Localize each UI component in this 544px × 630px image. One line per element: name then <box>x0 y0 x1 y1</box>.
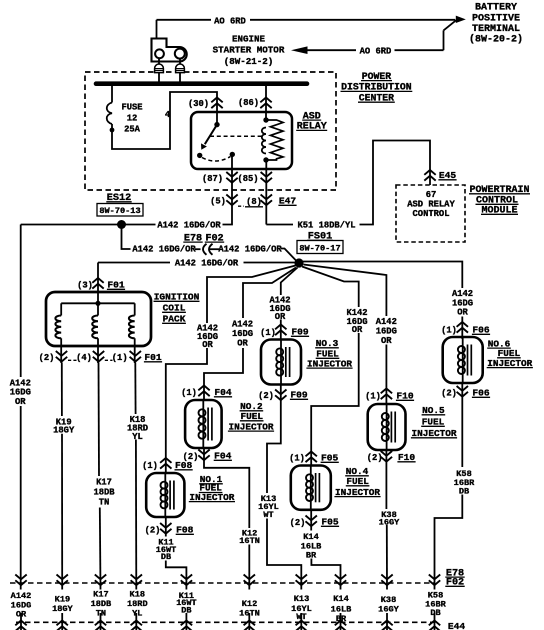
fuse 12 25A symbol <box>107 103 112 125</box>
label FUEL no.5 <box>421 417 445 428</box>
connector chevron no.3 pin1 F09 <box>275 325 286 336</box>
svg-text:(2): (2) <box>258 391 274 401</box>
label INJECTOR no.2 <box>228 421 274 432</box>
label connector E78 (bottom) <box>445 568 464 579</box>
label splice ES12 <box>106 193 131 204</box>
svg-text:16LB: 16LB <box>331 605 352 615</box>
label K18 18RD YL <box>127 415 148 442</box>
power distribution center enclosure (dashed box) <box>85 72 336 190</box>
label INJECTOR no.4 <box>334 487 380 498</box>
wire bus bar to relay terminal 86 <box>265 86 267 120</box>
wire K51 18DB/YL (left segment) <box>266 224 293 226</box>
svg-text:AO 6RD: AO 6RD <box>214 16 246 26</box>
relay coil winding <box>262 128 266 154</box>
svg-text:A142: A142 <box>11 591 32 601</box>
svg-text:18GY: 18GY <box>53 426 75 436</box>
splice dot ES12 <box>117 220 126 229</box>
connector chevron K19 at row E78/F02 <box>57 575 68 586</box>
connector chevron K38 at row E78/F02 <box>381 575 392 586</box>
label connector F01 (bottom) <box>144 352 162 363</box>
svg-text:K51 18DB/YL: K51 18DB/YL <box>297 220 355 230</box>
svg-text:18DB: 18DB <box>93 488 115 498</box>
label connector E47 <box>278 196 296 207</box>
wire ES12 drop to inline connector <box>122 225 131 250</box>
wire splice ray to no.1 injector <box>207 266 296 324</box>
label connector F06 (bottom) <box>472 388 490 399</box>
wire A0 6RD to starter (left segment) <box>307 49 357 51</box>
wire A142 16DG/OR left column upper <box>20 225 22 378</box>
connector chevron A142 at row E78/F02 <box>15 575 26 586</box>
powertrain control module enclosure (dashed box) <box>396 185 465 242</box>
svg-text:A142 16DG/OR: A142 16DG/OR <box>218 245 282 255</box>
wire splice to no.6 injector feed <box>303 262 462 289</box>
wire battery branch riser <box>443 30 445 50</box>
svg-text:K19: K19 <box>55 595 70 605</box>
svg-text:OR: OR <box>275 312 286 322</box>
svg-text:(8W-20-2): (8W-20-2) <box>469 34 523 46</box>
label INJECTOR no.6 <box>487 358 533 369</box>
label PACK <box>162 314 186 325</box>
svg-text:16GY: 16GY <box>379 517 400 527</box>
wire K18 row2 stem <box>135 613 137 630</box>
relay switch arm <box>205 125 217 145</box>
wire K13 row2 stem <box>300 613 302 630</box>
label FUEL no.6 <box>497 348 521 359</box>
label IGNITION COIL PACK <box>154 292 200 303</box>
svg-text:STARTER MOTOR: STARTER MOTOR <box>213 45 285 56</box>
svg-text:(1): (1) <box>112 353 128 363</box>
wire K38 row2 stem <box>386 613 388 630</box>
svg-text:16TN: 16TN <box>239 608 260 618</box>
wire K19 18GY upper <box>61 363 63 417</box>
dashed link F01 b <box>105 359 113 361</box>
starter terminal bullet right <box>176 64 185 73</box>
connector chevron K17 at row E44 <box>95 621 106 630</box>
label K58 16BR DB (upper) <box>454 469 475 497</box>
svg-text:(1): (1) <box>289 454 305 464</box>
label K13 16YL WT (bottom) <box>291 594 312 622</box>
underline POWER <box>361 80 392 82</box>
relay coil bottom dot <box>263 157 268 162</box>
wire K14 row2 stem <box>340 613 342 630</box>
label connector F02 (inline) <box>205 233 224 244</box>
power bus bar <box>96 81 307 86</box>
svg-text:K14: K14 <box>333 594 348 604</box>
connector chevron terminal 86 <box>260 98 271 109</box>
connector chevron coil pin 3 F01 <box>92 278 103 289</box>
label K58 16BR DB (bottom) <box>425 591 446 619</box>
coil pack winding lead lower 2 <box>97 338 99 363</box>
svg-text:BATTERY: BATTERY <box>475 3 517 14</box>
label A142 16DG OR (no.1 feed) <box>197 324 218 351</box>
svg-text:12: 12 <box>127 113 138 123</box>
svg-text:(8W-21-2): (8W-21-2) <box>224 56 274 67</box>
wire no.1 feed lower <box>166 348 207 473</box>
label NO.2 <box>240 401 264 412</box>
relay contact dot left <box>197 153 202 158</box>
fuse bottom terminal dot <box>110 128 115 133</box>
connector row E44 dashed line <box>16 621 435 623</box>
label connector F05 (top) <box>321 453 339 464</box>
engine starter motor symbol <box>152 39 187 62</box>
wire A142 row2 stem <box>20 613 22 630</box>
label CONTROL <box>476 196 519 207</box>
svg-text:(8): (8) <box>246 197 262 207</box>
wire battery branch diagonal <box>444 20 457 30</box>
coil pack internal bus <box>61 302 135 304</box>
connector chevron pin 8 E47 <box>261 195 272 206</box>
wire K19 row2 stem <box>61 613 63 630</box>
wire no.3 feed lower <box>280 320 282 340</box>
svg-text:16DG: 16DG <box>10 388 31 398</box>
svg-text:18DB: 18DB <box>91 599 112 609</box>
connector chevron K12 at row E44 <box>244 621 255 630</box>
wire splice ray to no.4 injector (K142) <box>302 267 359 308</box>
wire A0 6RD riser from starter motor <box>156 20 158 38</box>
wire A0 6RD to starter (right segment) <box>395 49 444 51</box>
no.2 fuel injector symbol <box>185 400 222 448</box>
svg-text:8W-70-17: 8W-70-17 <box>299 243 340 253</box>
label NO.6 <box>487 338 511 349</box>
svg-text:DB: DB <box>430 608 440 618</box>
svg-text:TERMINAL: TERMINAL <box>472 24 520 35</box>
connector chevron no.3 pin2 F09 <box>275 390 286 401</box>
svg-text:YL: YL <box>132 609 142 619</box>
wire K13 to connector row <box>267 519 301 590</box>
connector chevron coil pin 4 F01 <box>93 351 104 362</box>
svg-text:(1): (1) <box>181 388 197 398</box>
svg-text:OR: OR <box>15 397 26 407</box>
ignition coil winding 2 <box>92 316 98 339</box>
wire K38 to connector row <box>386 525 388 590</box>
coil pack winding lead 1 <box>60 303 62 315</box>
wire K14 to connector row <box>311 559 340 590</box>
label A142 16DG OR (no.2 feed) <box>232 320 253 349</box>
dashed link E47 connector <box>238 205 244 207</box>
label connector E45 <box>438 170 456 181</box>
svg-text:(2): (2) <box>441 389 457 399</box>
svg-text:(1): (1) <box>260 328 276 338</box>
no.5 fuel injector symbol <box>368 404 406 450</box>
wire bullet right to bus bar <box>179 73 181 82</box>
wire A142 16DG/OR to ignition coil (right segment) <box>244 262 296 264</box>
svg-text:TN: TN <box>99 498 110 508</box>
svg-text:(86): (86) <box>238 98 259 108</box>
svg-text:OR: OR <box>352 325 363 335</box>
connector chevron no.2 pin2 F04 <box>198 450 209 461</box>
svg-text:16GY: 16GY <box>378 605 399 615</box>
wire no.2 feed lower <box>204 348 243 400</box>
label FUSE 12 25A <box>121 102 142 134</box>
svg-text:(1): (1) <box>365 392 381 402</box>
wire no.4 output K14 upper <box>310 510 312 531</box>
no.3 fuel injector symbol <box>261 340 301 385</box>
wire K17 18DB/TN lower <box>99 508 102 590</box>
label K12 16TN (bottom) <box>239 599 260 619</box>
svg-text:ASD RELAY: ASD RELAY <box>407 200 455 210</box>
label ASD <box>302 111 321 122</box>
wire no.3 output K13 <box>267 385 281 493</box>
connector chevron K13 at row E44 <box>296 621 307 630</box>
label connector F08 (bottom) <box>176 525 194 536</box>
wire no.6 feed into injector <box>461 317 463 340</box>
svg-text:K38: K38 <box>381 595 396 605</box>
svg-text:OR: OR <box>237 339 248 349</box>
label connector F08 (top) <box>175 460 193 471</box>
dashed link F01 a <box>68 359 77 361</box>
connector chevron K14 at row E44 <box>335 621 346 630</box>
svg-text:8W-70-13: 8W-70-13 <box>99 206 140 216</box>
connector chevron K12 at row E78/F02 <box>244 575 255 586</box>
wire K12 to connector row <box>248 545 250 590</box>
wire stub into inline connector <box>195 248 201 250</box>
svg-text:A142 16DG/OR: A142 16DG/OR <box>175 259 239 269</box>
svg-text:16DG: 16DG <box>232 329 253 339</box>
coil pack winding lead 2 <box>97 303 99 315</box>
label FUEL no.4 <box>346 476 370 487</box>
connector chevron no.6 pin1 F06 <box>457 322 468 333</box>
connector chevron no.4 pin2 F05 <box>306 516 317 527</box>
connector chevron coil pin 2 F01 <box>56 351 67 362</box>
label MODULE <box>481 206 518 217</box>
svg-text:DB: DB <box>459 487 469 497</box>
wire inline connector to splice FS01 <box>281 249 297 262</box>
svg-text:(3): (3) <box>77 281 93 291</box>
svg-text:(85): (85) <box>237 174 258 184</box>
connector chevron K13 at row E78/F02 <box>296 575 307 586</box>
connector chevron no.5 pin1 F10 <box>381 389 392 400</box>
label 67 ASD RELAY CONTROL <box>407 190 455 219</box>
wire K18 18RD/YL lower <box>135 440 137 590</box>
label POWERTRAIN <box>469 185 530 196</box>
svg-text:K17: K17 <box>93 590 108 600</box>
label INJECTOR no.1 <box>189 492 235 503</box>
svg-text:25A: 25A <box>124 124 141 134</box>
inline connector symbol E78/F02 <box>203 244 219 255</box>
wire K17 18DB/TN upper <box>98 363 101 477</box>
wire K51 18DB/YL to PCM <box>360 141 431 225</box>
label K38 16GY (bottom) <box>378 595 399 615</box>
wire no.2 output K12 <box>204 448 249 528</box>
ignition coil winding 1 <box>55 316 61 339</box>
label connector F06 (top) <box>472 325 490 336</box>
relay switch arm arrowhead <box>201 143 207 149</box>
svg-text:ENGINE: ENGINE <box>232 34 266 45</box>
svg-text:FUSE: FUSE <box>121 102 142 112</box>
wire relay terminal 87 down to splice <box>223 156 233 225</box>
label NO.1 <box>199 474 223 485</box>
connector chevron coil pin 1 F01 <box>130 351 141 362</box>
coil pack winding lead lower 3 <box>134 338 136 363</box>
connector chevron K17 at row E78/F02 <box>95 575 106 586</box>
label K12 16TN (upper) <box>239 529 260 547</box>
svg-text:(2): (2) <box>145 526 161 536</box>
label K18 18RD YL (bottom) <box>127 590 148 619</box>
wire K58 to connector row <box>435 495 463 590</box>
label A142 16DG OR (left column) <box>10 379 31 408</box>
svg-text:K13: K13 <box>294 594 309 604</box>
wire starter motor stub left <box>158 59 160 64</box>
connector chevron pin 5 E47 <box>226 195 237 206</box>
label K142 16DG OR (no.4 feed) <box>346 308 367 335</box>
svg-text:OR: OR <box>457 308 468 318</box>
underline DISTRIBUTION <box>341 90 413 92</box>
connector chevron K11 at row E78/F02 <box>181 575 192 586</box>
svg-text:E44: E44 <box>448 621 466 630</box>
svg-text:K12: K12 <box>242 599 257 609</box>
label RELAY <box>296 122 327 133</box>
label connector F04 (top) <box>214 387 232 398</box>
label connector F10 (bottom) <box>397 452 415 463</box>
relay dashed throw arc <box>202 157 231 162</box>
relay coil shunt resistor <box>266 120 283 160</box>
label FUEL no.1 <box>199 483 223 494</box>
svg-text:(2): (2) <box>367 453 383 463</box>
svg-text:A142: A142 <box>376 317 397 327</box>
label K14 16LB BR (bottom) <box>331 594 352 624</box>
wire K11 to connector row <box>166 561 187 590</box>
label A142 16DG OR (no.6 feed) <box>452 289 473 318</box>
svg-text:OR: OR <box>202 340 213 350</box>
connector chevron no.4 pin1 F05 <box>306 452 317 463</box>
label connector F02 (bottom) <box>445 578 464 589</box>
connector chevron no.6 pin2 F06 <box>457 386 468 397</box>
svg-text:A142: A142 <box>452 289 473 299</box>
wire fuse to relay terminal 30 <box>112 92 217 149</box>
wire no.1 output K11 upper <box>165 517 167 537</box>
label K14 16LB BR (upper) <box>301 532 322 560</box>
label connector F05 (bottom) <box>321 517 339 528</box>
arrow to battery positive terminal <box>456 16 466 23</box>
svg-text:OR: OR <box>16 610 27 620</box>
underline IGNITION <box>154 300 200 302</box>
ignition coil winding 3 <box>129 316 135 339</box>
svg-text:(2): (2) <box>39 353 55 363</box>
connector chevron E45 <box>424 170 435 181</box>
wire A142 16DG/OR left column lower <box>20 406 22 590</box>
wire A142 16DG/OR to ignition coil (left segment) <box>98 262 170 264</box>
svg-text:(1): (1) <box>142 461 158 471</box>
connector chevron K18 at row E78/F02 <box>131 575 142 586</box>
label INJECTOR no.5 <box>411 428 457 439</box>
svg-text:POSITIVE: POSITIVE <box>472 13 520 24</box>
starter terminal bullet left <box>155 64 164 73</box>
label BATTERY POSITIVE TERMINAL (8W-20-2) <box>469 3 523 46</box>
label K13 16YL WT (upper) <box>258 494 279 520</box>
label K11 16WT DB (upper) <box>156 538 176 563</box>
wire no.5 feed lower <box>385 345 387 405</box>
label K17 18DB TN <box>93 478 115 508</box>
connector chevron terminal 87 <box>226 172 237 183</box>
connector chevron K14 at row E78/F02 <box>335 575 346 586</box>
connector chevron K58 at row E78/F02 <box>429 575 440 586</box>
label K38 16GY (upper) <box>379 510 400 527</box>
label A142 16DG OR (no.5 feed) <box>376 317 397 346</box>
connector chevron no.5 pin2 F10 <box>381 451 392 462</box>
label connector F10 (top) <box>396 391 414 402</box>
svg-text:(4): (4) <box>76 353 92 363</box>
label connector E78 (inline) <box>183 233 202 244</box>
wire no.6 output K58 <box>461 383 463 467</box>
wire bullet left to bus bar <box>158 73 160 82</box>
relay contact dot right <box>230 152 235 157</box>
no.4 fuel injector symbol <box>291 466 331 510</box>
wire K18 18RD/YL upper <box>134 363 136 415</box>
connector chevron terminal 30 <box>211 98 222 109</box>
connector chevron K19 at row E44 <box>57 621 68 630</box>
label connector F09 (top) <box>291 327 309 338</box>
relay dashed actuation line <box>210 135 262 137</box>
svg-text:67: 67 <box>426 190 437 200</box>
ignition coil pack box <box>46 292 151 346</box>
svg-text:WT: WT <box>263 510 273 520</box>
svg-text:K17: K17 <box>96 478 112 488</box>
svg-text:(87): (87) <box>202 174 223 184</box>
wire K17 row2 stem <box>100 613 102 630</box>
reference box 8W-70-17 <box>297 241 343 254</box>
label K17 18DB TN (bottom) <box>91 590 112 619</box>
wire starter motor stub right <box>179 59 181 64</box>
coil pack winding lead lower 1 <box>60 338 62 363</box>
arrow to engine starter motor <box>291 46 308 54</box>
svg-text:AO 6RD: AO 6RD <box>360 46 392 56</box>
svg-text:OR: OR <box>381 336 392 346</box>
connector chevron no.2 pin1 F04 <box>198 386 209 397</box>
wire A0 6RD to battery (left segment) <box>157 19 212 21</box>
label NO.5 <box>422 405 446 416</box>
wire K12 row2 stem <box>248 613 250 630</box>
underline CENTER <box>358 101 395 103</box>
wire relay terminal 85 down to K51 <box>265 160 267 225</box>
label NO.3 <box>315 338 339 349</box>
svg-text:(1): (1) <box>441 326 457 336</box>
label A142 16DG OR (no.3 feed) <box>269 296 290 322</box>
svg-text:A142 16DG/OR: A142 16DG/OR <box>132 245 196 255</box>
label connector F01 (top) <box>107 280 125 291</box>
wire A142 16DG/OR main horizontal <box>21 224 156 226</box>
svg-text:(5): (5) <box>210 197 226 207</box>
underline pin (8) <box>245 206 263 208</box>
connector chevron K18 at row E44 <box>131 621 142 630</box>
wire splice ray to no.5 injector <box>304 265 387 317</box>
wire splice ray to no.3 injector <box>281 268 298 296</box>
svg-text:WT: WT <box>296 612 306 622</box>
connector chevron no.1 pin2 F08 <box>160 523 171 534</box>
label FUEL no.3 <box>316 349 340 360</box>
relay switch pivot dot <box>214 122 219 127</box>
svg-text:18RD: 18RD <box>127 599 148 609</box>
connector chevron K11 at row E44 <box>181 621 192 630</box>
label splice FS01 <box>307 232 332 243</box>
svg-text:A142: A142 <box>232 320 253 330</box>
svg-text:K18: K18 <box>130 590 145 600</box>
svg-text:BR: BR <box>336 614 347 624</box>
connector chevron K58 at row E44 <box>429 621 440 630</box>
label COIL <box>162 303 186 314</box>
connector chevron terminal 85 <box>261 172 272 183</box>
svg-text:(30): (30) <box>188 99 209 109</box>
wire A0 6RD to battery (right segment) <box>250 19 455 21</box>
wire K58 row2 stem <box>434 613 436 630</box>
wire K11 row2 stem <box>185 613 187 630</box>
wire no.4 feed lower <box>311 333 359 466</box>
wire splice ray to no.2 injector <box>243 268 296 319</box>
ASD relay box <box>191 112 292 169</box>
coil pack junction dot <box>95 301 100 306</box>
coil pack winding lead 3 <box>134 303 136 315</box>
label K11 16WT DB (bottom) <box>176 591 196 615</box>
wire K19 18GY lower <box>61 434 63 590</box>
